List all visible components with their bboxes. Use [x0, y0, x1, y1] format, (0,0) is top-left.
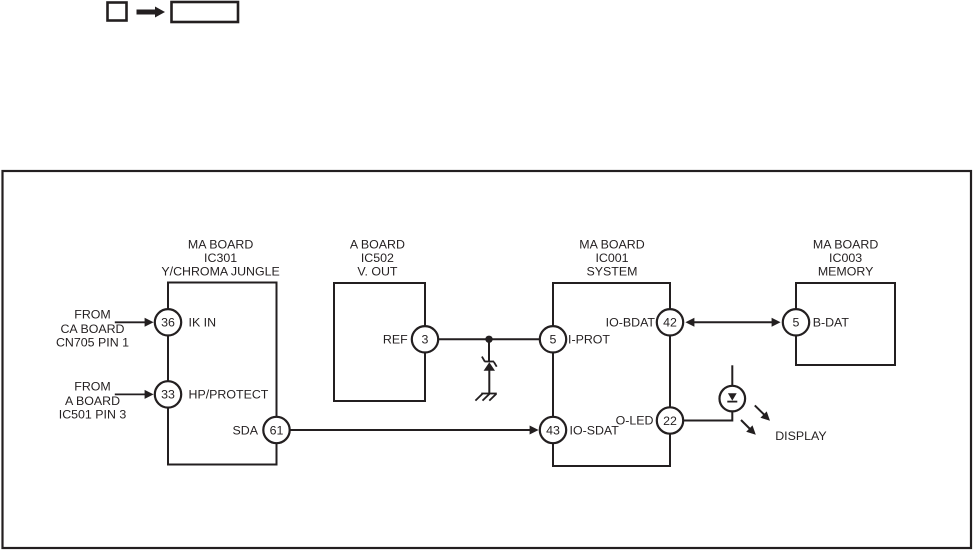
svg-text:FROM: FROM: [74, 308, 110, 322]
svg-text:CN705 PIN 1: CN705 PIN 1: [56, 336, 129, 350]
svg-text:36: 36: [161, 316, 175, 330]
svg-text:3: 3: [422, 333, 429, 347]
svg-text:IO-BDAT: IO-BDAT: [606, 316, 656, 330]
svg-text:MA BOARD: MA BOARD: [813, 238, 878, 252]
outer frame: [3, 171, 972, 548]
svg-text:IC003: IC003: [829, 251, 862, 265]
junction node: [485, 336, 492, 343]
svg-text:22: 22: [663, 414, 677, 428]
ground: [475, 394, 496, 401]
pin 22: [657, 407, 683, 433]
pin 61: [263, 417, 289, 443]
svg-text:Y/CHROMA JUNGLE: Y/CHROMA JUNGLE: [161, 265, 279, 279]
svg-text:CA BOARD: CA BOARD: [60, 322, 124, 336]
svg-text:B-DAT: B-DAT: [813, 316, 850, 330]
svg-text:MA BOARD: MA BOARD: [579, 238, 644, 252]
label MA BOARD IC301: [161, 238, 279, 279]
box IC001 SYSTEM: [553, 283, 670, 466]
wire LED anode up: [731, 365, 733, 386]
svg-text:A BOARD: A BOARD: [65, 394, 120, 408]
svg-text:MA BOARD: MA BOARD: [188, 238, 253, 252]
legend: small square: [108, 3, 127, 21]
svg-text:FROM: FROM: [74, 380, 110, 394]
svg-text:MEMORY: MEMORY: [818, 265, 874, 279]
svg-text:IK IN: IK IN: [189, 316, 217, 330]
svg-text:O-LED: O-LED: [616, 413, 654, 427]
LED light arrow upper: [755, 405, 770, 420]
label MA BOARD IC003: [813, 238, 878, 279]
svg-text:43: 43: [546, 423, 560, 437]
pin 33: [155, 381, 181, 407]
box IC301 Y/CHROMA JUNGLE: [168, 283, 277, 465]
svg-text:DISPLAY: DISPLAY: [775, 429, 826, 443]
pin 5 I-PROT: [540, 326, 566, 352]
svg-text:REF: REF: [383, 333, 408, 347]
svg-text:IO-SDAT: IO-SDAT: [570, 423, 620, 437]
wire zener branch down: [488, 339, 490, 362]
label A BOARD IC502: [350, 238, 405, 279]
svg-text:5: 5: [550, 333, 557, 347]
svg-text:61: 61: [270, 423, 284, 437]
label FROM A BOARD IC501 PIN 3: [59, 380, 127, 422]
LED D display: [720, 386, 746, 412]
arrowhead into pin 43: [530, 426, 539, 435]
svg-text:HP/PROTECT: HP/PROTECT: [189, 388, 269, 402]
double arrow 42 to 5 B-DAT: [685, 318, 780, 327]
legend: arrow: [137, 7, 166, 18]
zener diode D: [482, 357, 497, 371]
wire zener to ground: [488, 370, 490, 394]
svg-text:SYSTEM: SYSTEM: [587, 265, 638, 279]
svg-text:IC501 PIN 3: IC501 PIN 3: [59, 408, 127, 422]
label FROM CA BOARD CN705 PIN 1: [56, 308, 129, 350]
svg-text:42: 42: [663, 316, 677, 330]
pin 42: [657, 309, 683, 335]
pin 36: [155, 309, 181, 335]
svg-text:IC301: IC301: [204, 251, 237, 265]
box IC003 MEMORY: [796, 283, 895, 365]
label MA BOARD IC001: [579, 238, 644, 279]
svg-text:I-PROT: I-PROT: [568, 333, 610, 347]
pin 5 B-DAT: [783, 309, 809, 335]
svg-text:V. OUT: V. OUT: [357, 265, 398, 279]
legend: board rectangle: [172, 2, 239, 22]
svg-text:33: 33: [161, 388, 175, 402]
LED light arrow lower: [741, 420, 756, 435]
arrow from CA BOARD to pin 36: [115, 318, 154, 327]
svg-text:5: 5: [793, 316, 800, 330]
svg-text:A BOARD: A BOARD: [350, 238, 405, 252]
box IC502 V.OUT: [334, 283, 425, 401]
arrow from A BOARD to pin 33: [115, 390, 154, 399]
wire SDA61 to IO-SDAT43: [291, 429, 537, 431]
wire O-LED22 to LED: [683, 411, 732, 421]
wire REF3 to I-PROT5: [438, 338, 540, 340]
svg-text:IC502: IC502: [361, 251, 394, 265]
pin 3: [412, 326, 438, 352]
svg-text:IC001: IC001: [595, 251, 628, 265]
pin 43: [540, 417, 566, 443]
svg-text:SDA: SDA: [233, 423, 259, 437]
